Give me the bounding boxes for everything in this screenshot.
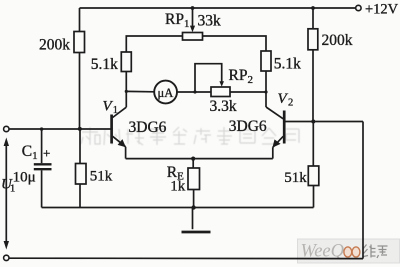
wire return right vertical (362, 122, 364, 259)
svg-text:RP1: RP1 (165, 11, 189, 30)
RP2 wiper loop (195, 64, 222, 92)
transistor V1 emitter diagonal (113, 136, 126, 147)
svg-text:51k: 51k (284, 170, 307, 186)
svg-text:200k: 200k (322, 32, 353, 49)
svg-text:3DG6: 3DG6 (129, 119, 167, 136)
junction dot RE bottom (191, 205, 195, 209)
junction dot RE top (191, 157, 195, 161)
wire meter left (126, 90, 154, 92)
wire emitter rail (126, 158, 273, 160)
wire collector branch V2 (265, 71, 267, 107)
resistor RE top lead (192, 159, 194, 168)
svg-text:C1: C1 (22, 143, 38, 162)
resistor 200k right bottom lead (312, 50, 314, 122)
wire top supply rail (80, 7, 356, 9)
junction dot base V2 bias (311, 120, 315, 124)
junction dot 200k right on rail (311, 6, 315, 10)
wire meter right (177, 91, 211, 93)
junction dot RP1 wiper on rail (191, 6, 195, 10)
svg-text:1: 1 (10, 183, 15, 194)
wire 200k-left top lead (79, 8, 81, 32)
svg-text:1: 1 (113, 105, 118, 116)
capacitor C1 plates (34, 163, 52, 165)
resistor 51k left body (76, 164, 87, 185)
meter uA body (154, 81, 177, 104)
wire base V2 (286, 121, 364, 123)
capacitor C1 top lead (41, 129, 43, 163)
RP2 wiper arrowhead (219, 81, 224, 87)
WeeQoo watermark box (decorative) (298, 239, 400, 263)
terminal +12V (356, 5, 361, 10)
svg-text:10μ: 10μ (13, 169, 36, 185)
watermark row (decorative) (81, 127, 299, 145)
capacitor C1 bottom lead (41, 170, 43, 207)
resistor 51k left top lead (79, 129, 81, 164)
wire 200k-left bottom lead to base node (79, 53, 81, 130)
ground symbol bar (182, 231, 211, 234)
resistor 5.1k right body (261, 51, 271, 71)
wire collector branch V1 (125, 72, 127, 108)
U1 arrowhead down (4, 241, 9, 250)
potentiometer RP1 right wire (203, 36, 267, 51)
V2 emitter arrowhead (272, 139, 280, 147)
junction dot RP2 loop tap (193, 90, 196, 93)
potentiometer RP2 body (211, 87, 230, 97)
resistor 200k right top lead (312, 8, 314, 29)
U1 arrowhead up (4, 138, 9, 147)
svg-text:1k: 1k (170, 179, 186, 195)
svg-text:2: 2 (288, 98, 293, 109)
svg-text:3.3k: 3.3k (210, 98, 237, 115)
potentiometer RP1 left wire (126, 36, 182, 52)
resistor RE bottom lead (193, 190, 195, 208)
potentiometer RP1 wiper lead (192, 8, 194, 27)
resistor 51k right body (308, 166, 319, 186)
wire bottom return rail (9, 257, 363, 259)
svg-text:5.1k: 5.1k (274, 56, 301, 73)
transistor V1 collector diagonal (113, 107, 127, 117)
resistor 200k left body (74, 32, 85, 53)
RP1 wiper arrowhead (190, 26, 195, 33)
resistor 51k right bottom lead (313, 186, 315, 208)
terminal input top (4, 126, 9, 131)
wire RP2 right (230, 91, 266, 93)
svg-text:200k: 200k (39, 37, 70, 54)
resistor RE body (188, 168, 200, 190)
wire ground rail (42, 207, 314, 209)
junction dot meter tap (125, 90, 128, 93)
resistor 200k right body (308, 29, 318, 50)
transistor V2 emitter diagonal (273, 136, 283, 147)
transistor V1 bar (110, 115, 113, 144)
transistor V2 collector diagonal (266, 107, 283, 119)
transistor V2 emitter drop (272, 147, 274, 158)
resistor 51k right top lead (312, 122, 314, 167)
terminal input bottom (4, 255, 9, 260)
junction dot RP2 right (264, 90, 267, 93)
svg-text:3DG6: 3DG6 (229, 118, 267, 135)
V1 emitter arrowhead (118, 139, 126, 147)
svg-text:51k: 51k (90, 168, 113, 184)
junction dot C1 tap (40, 127, 43, 130)
svg-text:+12V: +12V (365, 2, 399, 18)
svg-text:V: V (278, 91, 289, 107)
wire input to base of V1 (9, 128, 110, 130)
svg-text:5.1k: 5.1k (91, 56, 118, 73)
svg-text:33k: 33k (198, 13, 222, 30)
svg-text:+: + (43, 146, 50, 161)
junction dot base bias left (78, 127, 82, 131)
potentiometer RP1 body (183, 33, 203, 41)
source U1 arrow shaft (5, 141, 7, 246)
resistor 5.1k left body (121, 52, 131, 72)
transistor V1 emitter drop (125, 147, 127, 159)
svg-text:RP2: RP2 (229, 67, 253, 86)
ground symbol stem (192, 208, 194, 230)
svg-text:μA: μA (158, 86, 174, 100)
resistor 51k left bottom lead (79, 184, 81, 208)
transistor V2 bar (283, 111, 286, 144)
